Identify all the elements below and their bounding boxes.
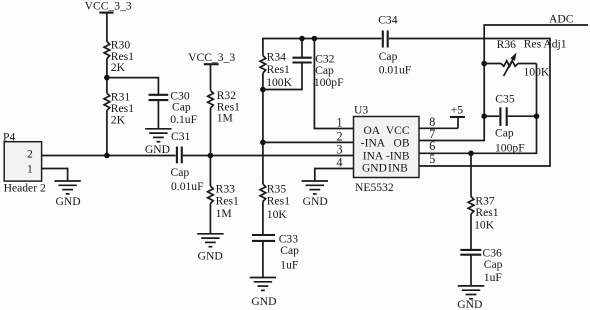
- svg-text:-INA: -INA: [361, 138, 386, 150]
- svg-text:1uF: 1uF: [280, 259, 299, 272]
- ground for C36: [458, 286, 484, 299]
- ground for C33: [250, 278, 276, 291]
- pin number 6: [429, 139, 435, 153]
- ground for C30: [145, 129, 171, 142]
- node junction R34/C32 bottom: [260, 87, 266, 93]
- pin number 1: [337, 115, 343, 129]
- svg-text:Cap: Cap: [172, 100, 191, 113]
- svg-text:VCC_3_3: VCC_3_3: [85, 0, 132, 12]
- wire branch to C30: [107, 78, 158, 95]
- wire R31 to main: [106, 111, 108, 156]
- svg-text:VCC: VCC: [386, 125, 410, 137]
- svg-text:1: 1: [337, 115, 343, 129]
- svg-text:C35: C35: [495, 93, 515, 106]
- svg-text:100pF: 100pF: [495, 141, 525, 154]
- capacitor C35: [484, 93, 536, 155]
- svg-text:C34: C34: [378, 14, 398, 27]
- svg-text:1M: 1M: [217, 111, 233, 124]
- svg-text:Cap: Cap: [379, 50, 398, 63]
- capacitor C36: [460, 246, 502, 286]
- wire main to R33: [209, 156, 211, 187]
- power +5: [450, 103, 465, 128]
- svg-text:GND: GND: [457, 298, 482, 310]
- svg-text:NE5532: NE5532: [355, 181, 394, 194]
- net label ADC: [549, 13, 574, 26]
- svg-text:INB: INB: [388, 163, 408, 175]
- connector P4 Header 2: [3, 131, 46, 195]
- wire R37 to C36: [470, 214, 472, 250]
- node junction R32/R33/main: [208, 153, 214, 159]
- svg-text:2K: 2K: [111, 61, 126, 74]
- pin number 2: [337, 129, 343, 143]
- wire U3 pin4 to ground: [315, 169, 354, 182]
- wire P4 pin1 to ground: [42, 169, 68, 182]
- ground for P4 pin1: [54, 181, 80, 194]
- svg-text:GND: GND: [56, 195, 81, 208]
- svg-text:1M: 1M: [216, 207, 232, 220]
- node junction pin1 riser/top wire: [312, 36, 318, 42]
- resistor R30: [104, 38, 134, 74]
- svg-text:Cap: Cap: [495, 126, 514, 139]
- svg-text:2: 2: [27, 147, 33, 160]
- resistor R37: [468, 194, 499, 231]
- svg-text:1uF: 1uF: [484, 271, 503, 284]
- node junction pin2/R35: [260, 140, 266, 146]
- svg-text:R34: R34: [267, 50, 287, 63]
- wire C31 to U3 pin3: [183, 155, 354, 157]
- svg-text:GND: GND: [251, 295, 276, 308]
- potentiometer R36 Res Adj1: [484, 37, 567, 78]
- wire main net P4 pin2 to C31: [42, 155, 176, 157]
- svg-text:C31: C31: [171, 130, 191, 143]
- svg-text:+5: +5: [451, 103, 464, 116]
- svg-text:INA: INA: [363, 150, 384, 162]
- wire top net left segment: [263, 39, 382, 56]
- wire R35 to C33: [262, 202, 264, 236]
- resistor R32: [208, 89, 240, 124]
- wire U3 pin8: [419, 127, 458, 129]
- wire R30 to junction: [106, 59, 108, 94]
- svg-text:2: 2: [337, 129, 343, 143]
- svg-text:GND: GND: [145, 143, 170, 156]
- svg-text:100K: 100K: [266, 76, 292, 89]
- svg-text:10K: 10K: [474, 218, 495, 231]
- ground for R33: [197, 234, 223, 247]
- capacitor C34: [378, 14, 412, 77]
- svg-text:Res Adj1: Res Adj1: [524, 37, 567, 50]
- power VCC_3_3 (middle): [188, 51, 235, 91]
- svg-text:Cap: Cap: [484, 258, 503, 271]
- wire C32 bottom link: [263, 63, 302, 90]
- svg-text:0.01uF: 0.01uF: [379, 64, 412, 77]
- svg-text:0.01uF: 0.01uF: [171, 180, 204, 193]
- pin number 5: [429, 152, 435, 166]
- node junction pin6/R37: [468, 151, 474, 157]
- svg-text:Res1: Res1: [267, 63, 290, 76]
- wire U3 pin1 riser: [314, 39, 353, 129]
- node junction R30/R31/C30: [104, 75, 110, 81]
- wire pin6 to R37: [470, 153, 472, 196]
- svg-text:R36: R36: [497, 38, 517, 51]
- svg-text:VCC_3_3: VCC_3_3: [188, 51, 235, 64]
- wire R33 to ground: [209, 204, 211, 234]
- pin number 8: [429, 115, 435, 129]
- svg-text:Cap: Cap: [280, 244, 299, 257]
- wire to U3 pin2: [263, 141, 354, 143]
- wire R36 right rail: [419, 64, 537, 154]
- svg-text:4: 4: [337, 155, 343, 169]
- wire pin2 net / R35 column: [262, 90, 264, 185]
- capacitor C33: [252, 233, 299, 278]
- op-amp U3 NE5532: [354, 103, 420, 193]
- capacitor C30: [149, 90, 198, 129]
- capacitor C32: [292, 39, 344, 89]
- wire top net right segment: [389, 39, 550, 167]
- svg-text:Res1: Res1: [216, 194, 239, 207]
- ground for U3 pin4: [302, 181, 328, 194]
- node junction C32/top wire: [299, 36, 305, 42]
- svg-text:Header 2: Header 2: [4, 182, 46, 195]
- svg-text:OA: OA: [364, 125, 381, 137]
- resistor R33: [208, 183, 239, 220]
- svg-text:2K: 2K: [111, 114, 126, 127]
- wire U3 pin7 to ADC rail: [419, 25, 588, 141]
- node junction R31/main: [104, 153, 110, 159]
- node junction ADC rail/C35: [481, 113, 487, 119]
- svg-text:GND: GND: [303, 195, 328, 208]
- svg-text:3: 3: [337, 142, 343, 156]
- wire R34 bottom: [262, 73, 264, 90]
- node junction C35 right: [534, 113, 540, 119]
- svg-text:10K: 10K: [267, 208, 288, 221]
- pin number 7: [429, 127, 435, 141]
- node junction ADC rail/R36: [481, 61, 487, 67]
- pin number 3: [337, 142, 343, 156]
- svg-text:100pF: 100pF: [314, 76, 344, 89]
- svg-text:1: 1: [27, 162, 33, 175]
- svg-text:GND: GND: [362, 163, 387, 175]
- wire R32 to main: [210, 108, 212, 156]
- svg-text:Res1: Res1: [475, 206, 498, 219]
- svg-text:R35: R35: [267, 182, 287, 195]
- svg-text:OB: OB: [394, 138, 410, 150]
- svg-text:ADC: ADC: [549, 13, 574, 26]
- svg-text:U3: U3: [354, 103, 368, 116]
- svg-text:GND: GND: [198, 250, 223, 263]
- svg-text:Cap: Cap: [171, 166, 190, 179]
- svg-text:-INB: -INB: [386, 150, 410, 162]
- svg-text:0.1uF: 0.1uF: [170, 113, 197, 126]
- svg-text:Res1: Res1: [267, 195, 290, 208]
- pin number 4: [337, 155, 343, 169]
- resistor R31: [104, 91, 134, 127]
- capacitor C31: [171, 130, 205, 193]
- power VCC_3_3 (left): [85, 0, 132, 42]
- resistor R34: [260, 50, 292, 89]
- resistor R35: [260, 182, 290, 221]
